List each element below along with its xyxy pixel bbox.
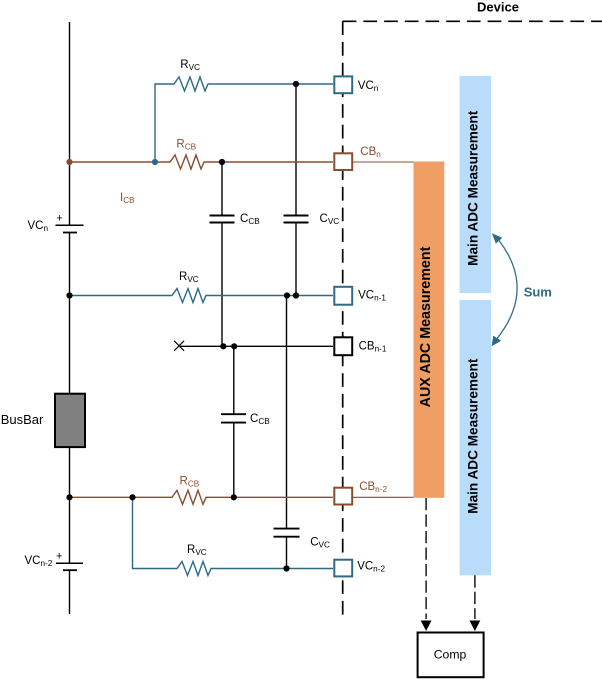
svg-text:+: +: [56, 550, 62, 562]
svg-text:Sum: Sum: [524, 285, 552, 300]
svg-text:+: +: [56, 212, 62, 224]
svg-text:AUX ADC Measurement: AUX ADC Measurement: [418, 246, 434, 407]
svg-text:BusBar: BusBar: [1, 412, 44, 427]
svg-text:Main ADC Measurement: Main ADC Measurement: [465, 110, 480, 266]
svg-text:Main ADC Measurement: Main ADC Measurement: [465, 358, 480, 514]
svg-text:Device: Device: [477, 0, 519, 14]
svg-text:Comp: Comp: [434, 648, 467, 662]
